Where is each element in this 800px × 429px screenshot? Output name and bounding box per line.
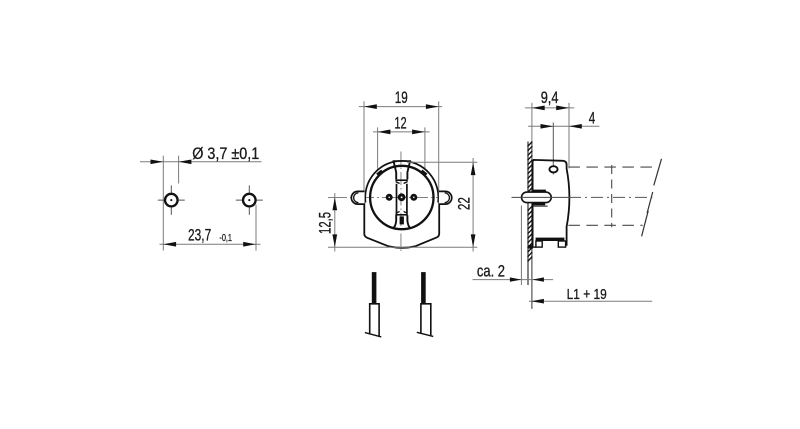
svg-text:L1 + 19: L1 + 19 xyxy=(567,286,607,303)
svg-text:19: 19 xyxy=(395,89,408,107)
svg-text:4: 4 xyxy=(589,109,596,127)
latch notch right xyxy=(422,171,427,175)
svg-text:12,5: 12,5 xyxy=(317,212,335,234)
mounting hole H2 with centerlines xyxy=(236,185,263,214)
contact dot right xyxy=(410,194,417,201)
right side tab xyxy=(439,191,452,204)
side view bottom feet xyxy=(528,238,565,249)
lead wire left xyxy=(365,272,381,337)
svg-text:ca. 2: ca. 2 xyxy=(477,263,505,281)
fixing stud side view xyxy=(522,190,552,207)
rotor bottom stub xyxy=(400,216,404,224)
dimension 19 xyxy=(359,89,442,191)
svg-text:23,7: 23,7 xyxy=(188,226,211,244)
lamp holder side view body outline xyxy=(533,160,570,247)
dimension 9,4 xyxy=(525,89,574,169)
contact dot center xyxy=(398,193,406,201)
dimension 23,7 -0,1 xyxy=(160,205,261,251)
dimension 12 xyxy=(373,114,430,168)
svg-text:-0,1: -0,1 xyxy=(219,232,232,244)
left side tab xyxy=(351,191,364,204)
centerlines front view xyxy=(328,152,452,253)
dimension Ø 3,7 ±0,1 xyxy=(140,145,262,251)
svg-text:9,4: 9,4 xyxy=(541,89,559,107)
dimension 12,5 xyxy=(317,193,338,252)
contact dot left xyxy=(386,194,393,201)
top hole side view xyxy=(549,166,557,172)
lead wire right xyxy=(417,272,433,336)
svg-text:12: 12 xyxy=(394,114,406,132)
lamp tube phantom outline xyxy=(568,165,653,227)
dimension L1 + 19 xyxy=(529,286,652,304)
lamp holder front view body outline xyxy=(364,161,439,248)
mounting plate with hatching xyxy=(528,142,533,309)
dimension 22 xyxy=(328,158,477,252)
tube break lines xyxy=(642,159,662,237)
dimension 4 xyxy=(528,109,599,174)
mounting hole H1 with centerlines xyxy=(158,185,185,214)
rotor slot column front view xyxy=(393,161,411,228)
dimension ca. 2 xyxy=(473,206,554,286)
centerline side view xyxy=(512,196,653,198)
latch notch left xyxy=(377,171,382,175)
svg-text:22: 22 xyxy=(456,197,474,210)
svg-text:Ø 3,7 ±0,1: Ø 3,7 ±0,1 xyxy=(192,145,259,163)
